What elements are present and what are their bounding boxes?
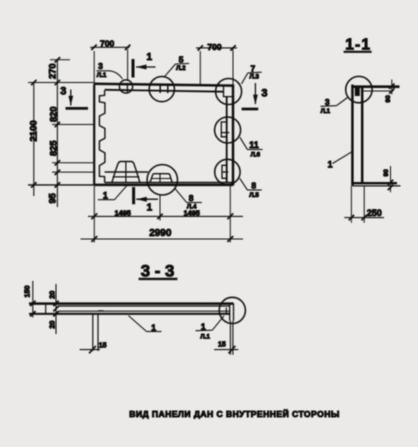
1-1 bottom flange [352,182,397,184]
wire panel top interior edge [105,90,224,92]
lifting loop bump 2 center line [159,174,161,183]
extension line y=184.9 (to 2100 line) [28,184,94,186]
3-3 left dims [32,281,34,318]
1-1 dim 250 [350,186,352,223]
1-1 vertical element right face [361,86,364,183]
1-1 bottom small dim 90 [390,166,392,192]
3-3 dim 15 left [80,349,100,351]
node seam pair in C2 [159,85,161,93]
extension line y=162.8 [52,162,94,164]
extension lines for 700 left [93,51,95,84]
wire panel bottom band top line [105,182,233,184]
1-1 corner plate [355,87,360,96]
extension lines for 700 right [199,51,201,84]
3-3 strip inner line 2 [58,310,230,312]
wire panel left exterior edge [93,84,95,185]
detail circle C5 (detail 8 right) [215,159,240,184]
wire panel right exterior edge [232,84,235,185]
lifting loop bump 1 center line [125,162,127,183]
bottom dim line 1495/1495 [88,215,243,217]
embedded plate in C5 [222,165,227,178]
embedded plate in C4 [221,122,227,137]
lifting loop bump 1 [112,162,140,183]
lifting loop bump 1 inner line [113,176,140,178]
extension line y=124.5 [52,124,94,126]
3-3 corner plate mark [226,308,229,314]
embedded plate in C3 [224,86,234,96]
3-3 left leg [92,314,94,351]
left dim chain line (inner) [56,60,58,208]
dimension 700 left [90,46,129,48]
3-3 detail circle [219,297,245,323]
dimension 700 right [196,47,237,49]
3-3 right leg [229,321,231,355]
3-3 strip inner line 1 [58,305,230,307]
section marker 1 bottom [132,187,135,204]
1-1 top flange [352,85,399,88]
wire panel right interior edge [226,97,228,183]
3-3 small step right of leg [98,310,104,312]
extension line y=59.8 [50,59,70,61]
3-3 right corner lip [229,303,231,320]
wire panel bottom exterior edge [94,184,233,187]
detail circle C2 (detail 5) [149,77,174,102]
wire panel top exterior edge [94,84,233,86]
wire left edge keyed profile [99,90,105,182]
extension line y=82.5 [28,82,94,84]
ticks left chain [55,57,60,62]
wire panel bottom interior edge (left part) [105,171,148,173]
1-1 vertical element left face [351,85,354,186]
lifting loop bump 2 [150,174,173,183]
detail circle C3 (corner detail 7) [216,79,242,105]
extension lines bottom [93,186,95,243]
bottom dim line 2990 [81,238,244,240]
extension line y=172.3 [52,171,95,173]
node seam in C1 [126,84,128,92]
3-3 dim 15 right [214,349,238,351]
lifting loop bump 2 inner line [151,178,170,180]
left dim chain line (outer, 2100) [33,82,35,196]
detail circle C6 (detail 8 bottom) [147,165,177,195]
detail circle C1 (joint 3) [119,80,132,93]
section marker 1 top [132,59,135,78]
3-3 left end cap [45,303,47,313]
3-3 strip bottom face [29,313,230,315]
1-1 corner circle [346,76,372,102]
3-3 strip top face [29,302,234,305]
detail circle C4 (detail 11) [215,117,241,143]
1-1 top small dim 90 [391,80,393,95]
